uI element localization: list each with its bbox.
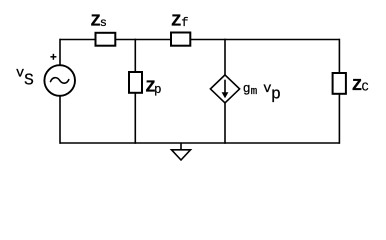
plus sign: [50, 54, 56, 60]
label Z_C: [352, 77, 369, 96]
svg-text:f: f: [181, 16, 188, 30]
label v_S: [16, 66, 34, 90]
svg-text:C: C: [362, 80, 369, 94]
label Z_s: [91, 12, 108, 31]
impedance Z_f: [171, 33, 190, 46]
wire dependent source branch lower: [224, 102, 226, 144]
svg-text:m: m: [251, 86, 258, 98]
svg-text:p: p: [154, 83, 162, 97]
svg-text:p: p: [271, 85, 281, 104]
impedance Z_C: [333, 73, 346, 94]
wire dependent source branch upper: [224, 39, 226, 76]
impedance Z_s: [96, 33, 116, 46]
impedance Z_p: [129, 72, 142, 93]
wire Z_p branch upper: [134, 39, 136, 72]
label Z_f: [171, 12, 188, 31]
label gm vp: [243, 81, 281, 104]
label Z_p: [145, 79, 161, 98]
wire top rail: [60, 39, 339, 41]
wire bottom rail: [60, 142, 339, 144]
ground: [172, 143, 191, 160]
wire right branch upper: [338, 39, 340, 73]
svg-text:Z: Z: [171, 12, 181, 31]
dependent current source gm*vp: [210, 75, 239, 103]
wire left branch lower: [59, 96, 61, 144]
wire left branch upper: [59, 39, 61, 66]
svg-text:g: g: [243, 81, 251, 96]
wire right branch lower: [338, 94, 340, 144]
svg-text:S: S: [24, 71, 34, 90]
voltage source VS: [44, 65, 75, 96]
svg-text:s: s: [100, 16, 107, 30]
wire Z_p branch lower: [134, 93, 136, 144]
